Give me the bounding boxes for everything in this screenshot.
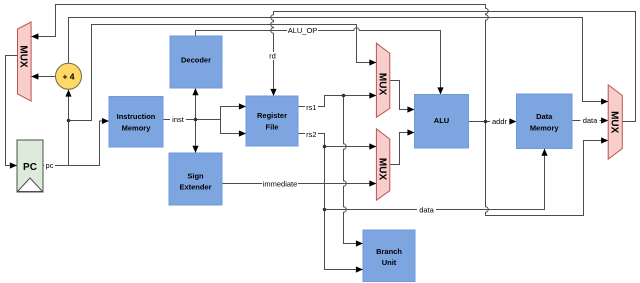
wire next-pc mux output to PC register	[6, 56, 18, 166]
junction inst node	[194, 118, 198, 122]
svg-text:MUX: MUX	[376, 158, 387, 181]
wire ALU_OP: Decoder to ALU control	[196, 28, 441, 94]
wire inst to Sign Extender	[195, 120, 197, 153]
label inst	[170, 115, 186, 124]
mux M3 operand-B	[376, 129, 389, 200]
wire rs2: Register File to operand-B mux input 1	[298, 134, 376, 147]
wire rs1 down to Branch Unit input 1	[344, 96, 363, 244]
block Sign Extender	[169, 153, 222, 205]
label rd	[267, 52, 279, 61]
junction store-data node	[323, 208, 327, 212]
mux M2 operand-A	[376, 43, 389, 117]
wire inst to Register File read port 2	[221, 120, 246, 134]
block Register File	[246, 96, 298, 146]
svg-text:ALU: ALU	[434, 116, 449, 125]
wire inst to Decoder	[195, 88, 197, 119]
wire pc branch up to +4 adder	[68, 90, 70, 166]
svg-text:rd: rd	[269, 52, 276, 61]
wire operand-B mux output to ALU input 2	[390, 133, 414, 165]
svg-text:inst: inst	[172, 115, 185, 124]
block ALU	[415, 95, 469, 149]
junction rs2 node	[323, 145, 327, 149]
wire rs2 down trunk	[324, 147, 326, 210]
svg-text:+ 4: + 4	[62, 71, 74, 81]
mux M1 next-pc (left)	[18, 22, 32, 101]
wire data: Data Memory output to writeback mux input 2	[572, 120, 608, 122]
junction rs1 node	[342, 94, 346, 98]
svg-text:MUX: MUX	[18, 45, 29, 68]
block Instruction Memory	[109, 97, 163, 148]
svg-text:data: data	[583, 116, 598, 125]
wire addr: ALU output to Data Memory	[469, 121, 517, 123]
mux M4 writeback (right)	[608, 85, 622, 159]
wire rs1: Register File to operand-A mux input 2	[298, 96, 376, 107]
label addr	[490, 117, 509, 126]
svg-text:rs1: rs1	[306, 103, 316, 112]
block Decoder	[170, 36, 222, 88]
wire operand-A mux output to ALU input 1	[390, 81, 414, 110]
svg-text:pc: pc	[46, 161, 54, 170]
svg-text:ALU_OP: ALU_OP	[288, 26, 318, 35]
svg-text:immediate: immediate	[263, 180, 298, 189]
svg-text:data: data	[419, 206, 434, 215]
block Branch Unit	[363, 230, 415, 282]
label ALU_OP	[287, 26, 318, 35]
wire pc to operand-A mux input 1	[69, 25, 377, 121]
svg-text:MUX: MUX	[608, 111, 619, 134]
label pc	[44, 161, 55, 170]
svg-text:rs2: rs2	[306, 130, 316, 139]
label immediate	[262, 180, 298, 189]
adder +4	[56, 63, 82, 89]
wire inst: Instruction Memory output trunk	[163, 119, 221, 121]
wire inst to Register File read port 1	[221, 107, 246, 120]
wire pc: PC register to Instruction Memory	[43, 121, 109, 166]
svg-text:PC: PC	[23, 162, 37, 173]
block Data Memory	[517, 94, 573, 149]
junction alu-result node	[484, 120, 488, 124]
label data out	[581, 116, 600, 125]
label rs2	[305, 130, 318, 139]
label data store	[417, 206, 436, 215]
svg-text:Decoder: Decoder	[181, 55, 211, 64]
svg-text:MUX: MUX	[376, 73, 387, 96]
register PC	[17, 140, 43, 192]
wire immediate: Sign Extender to operand-B mux input 2	[222, 183, 377, 185]
junction pc node	[67, 119, 71, 123]
wire pc+4: adder output over top to writeback mux input 1	[69, 18, 608, 102]
label rs1	[305, 103, 318, 112]
wire rs2 down to Branch Unit input 2	[325, 210, 363, 270]
wire data: rs2 store data to Data Memory write port	[325, 149, 545, 210]
wire +4 adder output to next-pc mux input 2	[32, 76, 56, 78]
wire next-pc: ALU result up over top to PC mux input 1	[32, 5, 489, 122]
wire rd: writeback mux output over top to Register File write port	[271, 12, 636, 122]
svg-text:addr: addr	[492, 117, 508, 126]
wire ALU result down to writeback mux input 3	[486, 122, 608, 216]
